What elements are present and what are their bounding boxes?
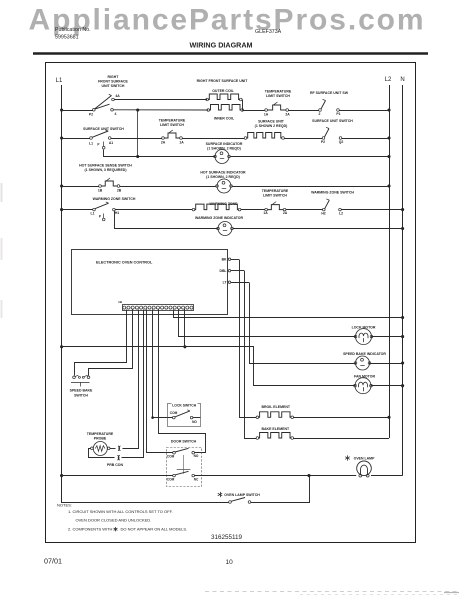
- svg-text:SPEED BAKE: SPEED BAKE: [70, 389, 93, 393]
- svg-text:2A: 2A: [285, 113, 290, 117]
- svg-text:1A: 1A: [263, 211, 268, 215]
- wire row2: [111, 138, 162, 140]
- svg-text:WARMING ZONE SWITCH: WARMING ZONE SWITCH: [93, 197, 136, 201]
- wire DBL to bake element: [245, 271, 257, 439]
- svg-text:L1: L1: [91, 212, 95, 216]
- speed bake switch: [73, 376, 76, 379]
- wire LT to speed bake indicator: [250, 283, 356, 364]
- svg-text:OUTER COIL: OUTER COIL: [212, 89, 234, 93]
- wire BK to broil element: [240, 260, 257, 418]
- wire N bus: [402, 85, 404, 476]
- svg-text:LIMIT SWITCH: LIMIT SWITCH: [263, 194, 287, 198]
- svg-text:NO: NO: [192, 420, 197, 424]
- wire row3 to indicator: [120, 186, 216, 188]
- svg-text:RIGHT FRONT SURFACE UNIT: RIGHT FRONT SURFACE UNIT: [197, 79, 249, 83]
- wire oven lamp switch to lamp line: [251, 476, 310, 503]
- svg-text:(1 SHOWN 2 REQD): (1 SHOWN 2 REQD): [255, 124, 288, 128]
- svg-text:WARMING ZONE INDICATOR: WARMING ZONE INDICATOR: [195, 216, 244, 220]
- svg-text:P1: P1: [336, 112, 340, 116]
- wire row2 to L2: [342, 138, 389, 140]
- svg-text:OVEN LAMP SWITCH: OVEN LAMP SWITCH: [224, 493, 260, 497]
- svg-text:07/01: 07/01: [44, 557, 62, 566]
- wire strip to lock switch COM: [153, 310, 173, 418]
- wire strip to speed bake switch A: [75, 310, 127, 376]
- wire strip to lock motor row: [179, 310, 356, 337]
- wire row1 upper branch: [114, 99, 207, 101]
- oven lamp: [347, 455, 349, 460]
- svg-text:PROBE: PROBE: [94, 437, 107, 441]
- svg-text:2A: 2A: [283, 211, 288, 215]
- svg-text:SURFACE UNIT SWITCH: SURFACE UNIT SWITCH: [312, 119, 353, 123]
- wire lock NO to box edge: [193, 417, 201, 419]
- svg-text:L2: L2: [385, 77, 392, 83]
- svg-text:SURFACE UNIT: SURFACE UNIT: [258, 120, 285, 124]
- svg-text:SURFACE UNIT SWITCH: SURFACE UNIT SWITCH: [83, 127, 124, 131]
- wire row4 to temp limit switch: [241, 209, 265, 211]
- svg-text:WIRING DIAGRAM: WIRING DIAGRAM: [189, 41, 252, 50]
- svg-text:TEMPERATURE: TEMPERATURE: [87, 432, 114, 436]
- electronic oven control box: [72, 250, 228, 315]
- svg-text:2B: 2B: [117, 189, 122, 193]
- wire indicator row to L2: [230, 156, 389, 158]
- wire row4 to N: [341, 209, 402, 211]
- svg-text:BK: BK: [222, 258, 227, 262]
- svg-text:Publication No.: Publication No.: [55, 27, 91, 33]
- probe connector PRB CON: [118, 446, 120, 451]
- svg-text:PRB CON: PRB CON: [107, 463, 124, 467]
- svg-text:ELECTRONIC OVEN CONTROL: ELECTRONIC OVEN CONTROL: [96, 261, 153, 265]
- wire strip to door COM: [147, 310, 173, 453]
- svg-text:(1 SHOWN, 3 REQUIRED): (1 SHOWN, 3 REQUIRED): [84, 168, 126, 172]
- warming zone switch aux contact: [102, 218, 105, 221]
- wire EOC to N row: [174, 310, 403, 318]
- svg-text:BAKE ELEMENT: BAKE ELEMENT: [262, 427, 290, 431]
- svg-text:P: P: [97, 143, 100, 147]
- wire probe left lead: [89, 449, 115, 458]
- svg-text:NOTES:: NOTES:: [57, 503, 72, 508]
- wire row4 to element: [115, 209, 192, 211]
- svg-text:BROIL ELEMENT: BROIL ELEMENT: [262, 405, 291, 409]
- svg-text:L2: L2: [339, 212, 343, 216]
- svg-text:LIMIT SWITCH: LIMIT SWITCH: [266, 94, 290, 98]
- svg-text:L1: L1: [56, 78, 63, 84]
- lock switch: [168, 404, 201, 427]
- svg-text:SWITCH: SWITCH: [74, 393, 88, 397]
- wire strip to door NO loop: [159, 310, 206, 453]
- svg-text:DOOR SWITCH: DOOR SWITCH: [171, 440, 197, 444]
- wire row1 lower branch: [113, 109, 208, 111]
- svg-text:FRONT SURFACE: FRONT SURFACE: [98, 80, 128, 84]
- svg-text:DO NOT APPEAR ON ALL MODELS.: DO NOT APPEAR ON ALL MODELS.: [121, 527, 188, 532]
- svg-text:TEMPERATURE: TEMPERATURE: [262, 189, 289, 193]
- svg-text:SURFACE INDICATOR: SURFACE INDICATOR: [206, 142, 243, 146]
- wire strip junction to L1 row: [184, 309, 186, 347]
- svg-text:WARMING ZONE SWITCH: WARMING ZONE SWITCH: [311, 191, 354, 195]
- door switch lower contacts: [173, 474, 176, 477]
- svg-text:OVEN DOOR CLOSED AND UNLOCKED.: OVEN DOOR CLOSED AND UNLOCKED.: [76, 518, 152, 523]
- wire row1 to RF switch: [289, 110, 319, 112]
- svg-text:1B: 1B: [98, 189, 103, 193]
- svg-text:INNER COIL: INNER COIL: [214, 117, 235, 121]
- wire L1 bus: [61, 85, 63, 502]
- svg-text:2: 2: [319, 112, 321, 116]
- oven lamp switch: [220, 492, 222, 497]
- wire L2 bus: [389, 85, 391, 438]
- svg-text:OVEN LAMP: OVEN LAMP: [354, 457, 375, 461]
- svg-text:SPEED BAKE INDICATOR: SPEED BAKE INDICATOR: [343, 352, 386, 356]
- svg-text:TEMPERATURE: TEMPERATURE: [159, 118, 186, 122]
- svg-text:RF SURFACE UNIT SW: RF SURFACE UNIT SW: [310, 91, 349, 95]
- wire row1 to L2: [339, 110, 389, 112]
- svg-text:1A: 1A: [179, 141, 184, 145]
- svg-text:Q2: Q2: [339, 140, 344, 144]
- svg-text:COM: COM: [167, 454, 175, 458]
- title rule: [33, 52, 428, 55]
- svg-text:2. COMPONENTS WITH: 2. COMPONENTS WITH: [68, 527, 113, 532]
- door switch link: [183, 455, 185, 470]
- svg-text:NO: NO: [194, 454, 199, 458]
- svg-text:UNIT SWITCH: UNIT SWITCH: [102, 84, 125, 88]
- wire oven lamp line: [62, 475, 173, 477]
- svg-text:59953681: 59953681: [55, 35, 79, 41]
- wire L1 to oven lamp switch: [62, 476, 229, 503]
- svg-text:2A: 2A: [161, 141, 166, 145]
- svg-text:P: P: [99, 215, 102, 219]
- wire coils join: [242, 100, 244, 111]
- switch aux contact stub: [102, 146, 105, 149]
- wire strip to speed bake switch B: [89, 310, 133, 376]
- svg-text:10: 10: [226, 559, 234, 566]
- svg-text:TEMPERATURE: TEMPERATURE: [265, 90, 292, 94]
- svg-text:LT: LT: [223, 281, 228, 285]
- wire row2 to element: [182, 138, 244, 140]
- wire bake to L2 bottom: [293, 438, 389, 440]
- svg-text:LOCK SWITCH: LOCK SWITCH: [172, 404, 196, 408]
- wire row1 to temperature limit switch: [242, 110, 265, 112]
- wire warming zone indicator to N: [233, 228, 402, 230]
- svg-text:LIMIT SWITCH: LIMIT SWITCH: [160, 123, 184, 127]
- svg-text:DBL: DBL: [220, 269, 227, 273]
- wire L1 row to fan motor: [62, 347, 356, 386]
- svg-text:(1 SHOWN, 2 REQD): (1 SHOWN, 2 REQD): [206, 175, 240, 179]
- svg-text:HOT SURFACE SENSE SWITCH: HOT SURFACE SENSE SWITCH: [79, 164, 132, 168]
- wire row4 to right switch: [286, 209, 323, 211]
- svg-text:H2: H2: [321, 212, 325, 216]
- svg-text:COM: COM: [170, 411, 178, 415]
- wire probe bottom to strip: [122, 310, 144, 458]
- wire row2 to right switch: [284, 138, 322, 140]
- svg-text:NC: NC: [194, 477, 199, 481]
- wire broil to L2: [293, 417, 389, 419]
- svg-text:H1: H1: [115, 211, 119, 215]
- svg-text:4: 4: [115, 112, 117, 116]
- wire row3 to L2: [232, 186, 389, 188]
- frame border: [46, 63, 416, 543]
- svg-text:316255119: 316255119: [211, 534, 243, 541]
- wire aux drop to indicator row: [104, 150, 216, 157]
- svg-text:P2: P2: [89, 113, 93, 117]
- left edge scan artifacts: [1, 183, 3, 202]
- svg-text:1. CIRCUIT SHOWN WITH ALL CO: 1. CIRCUIT SHOWN WITH ALL CONTROLS SET T…: [68, 509, 173, 514]
- svg-text:1A: 1A: [264, 113, 269, 117]
- svg-text:4A: 4A: [115, 94, 120, 98]
- wire indicator tap: [115, 211, 218, 229]
- svg-text:A1: A1: [109, 141, 113, 145]
- svg-text:HOT SURFACE INDICATOR: HOT SURFACE INDICATOR: [200, 171, 246, 175]
- svg-text:GLEF373A: GLEF373A: [255, 29, 282, 35]
- wire probe right lead: [110, 448, 116, 450]
- svg-text:N: N: [400, 77, 404, 83]
- svg-text:L1: L1: [89, 142, 93, 146]
- svg-text:P2: P2: [321, 140, 325, 144]
- wire probe top to strip: [123, 310, 139, 449]
- svg-text:RIGHT: RIGHT: [108, 75, 120, 79]
- svg-text:1B: 1B: [118, 300, 123, 304]
- bottom artifact marks: [205, 591, 458, 593]
- svg-text:COM: COM: [167, 477, 175, 481]
